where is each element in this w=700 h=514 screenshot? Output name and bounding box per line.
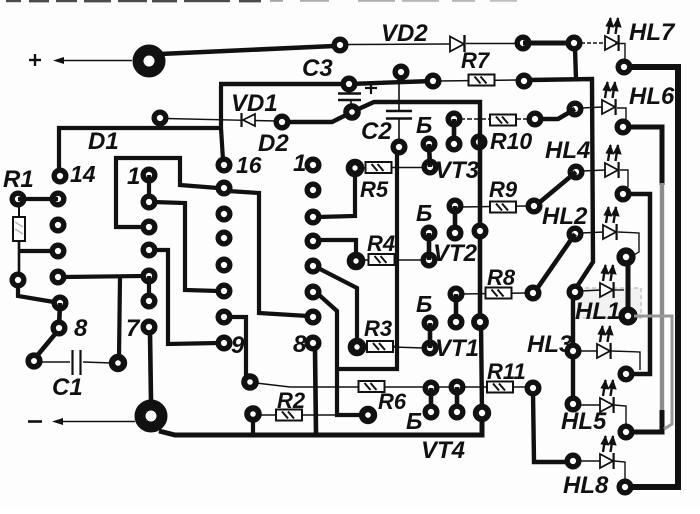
wire HL1-HL3-HL5 anode chain (571, 295, 575, 404)
wire pin1-pin2 (147, 175, 151, 202)
resistor R3 (351, 341, 398, 353)
pad D1 pin2 (143, 196, 155, 208)
resistor R11 (487, 382, 513, 393)
resistor R5 (349, 162, 422, 174)
wire HL5 cathode (614, 405, 626, 424)
wire 313,266 to R3 left pad (318, 268, 357, 343)
svg-text:C3: C3 (302, 55, 333, 82)
svg-text:R11: R11 (487, 359, 526, 384)
svg-text:C1: C1 (52, 374, 83, 401)
pad HL6 cathode (617, 121, 629, 133)
pad 429,233 (423, 227, 435, 239)
wire top horizontal to C3 (219, 81, 433, 84)
pad HL1 cathode (622, 310, 635, 323)
svg-text:R5: R5 (360, 177, 389, 202)
svg-text:VD1: VD1 (231, 90, 278, 117)
pad 313,190 (307, 184, 319, 196)
scan artifact marks along top edge (6, 0, 517, 2)
svg-text:HL3: HL3 (527, 331, 573, 358)
pad R9 right (528, 200, 540, 212)
pad 429,144 (423, 138, 435, 150)
pad C1 left (28, 355, 40, 367)
wire HL1 anode lead (581, 290, 601, 291)
svg-text:VT3: VT3 (435, 157, 480, 184)
pad R2 left upper (244, 376, 256, 388)
pad HL6 anode (569, 103, 581, 115)
svg-text:Б: Б (416, 112, 432, 138)
wire HL4 anode lead (582, 170, 605, 171)
wire pin2 to pad 224,188 (153, 202, 218, 291)
svg-text:HL1: HL1 (575, 298, 620, 325)
minus terminal arrow (28, 418, 135, 425)
pad C2 top (395, 66, 407, 78)
wire HL7 cathode (615, 44, 625, 61)
pad HL2 anode (569, 228, 581, 240)
wire plus pad to VD2 pad (160, 46, 334, 54)
wire HL8 anode lead (579, 460, 601, 462)
label C3 plus (365, 82, 377, 94)
pad HL4 anode (570, 166, 582, 178)
pad HL1 anode (569, 286, 581, 298)
resistor R7 (469, 75, 495, 86)
wire 454,119-454,144 (452, 119, 457, 144)
pad 224,188 (218, 182, 230, 194)
wire VT3 collector trace C3 area (59, 128, 221, 174)
svg-text:C2: C2 (361, 118, 392, 145)
wire C2 pad stub (399, 76, 400, 83)
wire R2 line (259, 414, 362, 416)
wire VD1 line (166, 119, 276, 122)
svg-text:1: 1 (293, 150, 306, 177)
wire D2 pad to C3 bottom to R10 bus (285, 102, 480, 135)
pad R1 top (12, 193, 24, 205)
wire 456,294-456,322 (454, 294, 459, 322)
wire drop to C1 right pad (119, 277, 120, 358)
capacitor C3 (338, 87, 361, 109)
pad 480,322 (474, 316, 486, 328)
wire HL3 cathode (611, 351, 640, 370)
pad 313,241 (307, 235, 319, 247)
wire VD2 anode (348, 43, 449, 46)
wire R8 line (462, 293, 527, 294)
resistor R10 (490, 115, 516, 126)
pad 454,144 (448, 138, 460, 150)
pad D2 top left (276, 116, 288, 128)
pad C3 bottom (346, 106, 358, 118)
wire ground U link (337, 152, 397, 369)
pad 224,165 pin16 (218, 159, 230, 171)
pad 224,265 (218, 259, 230, 271)
wire 430,323-430,348 (428, 323, 433, 348)
pad 313,343 (307, 337, 319, 349)
pad 313,217 (307, 211, 319, 223)
pad 313,165 (307, 159, 319, 171)
wire R4 to VT2 pad (394, 259, 423, 261)
wire pin4 to pin9 pad (154, 250, 218, 344)
pad 313,317 (307, 311, 319, 323)
wire HL7 pad down to R7 node (575, 48, 576, 79)
pad 313,266 (307, 260, 319, 272)
LED HL4 (605, 144, 622, 178)
pad 58,225 (52, 219, 64, 231)
svg-text:8: 8 (74, 315, 88, 342)
svg-text:R9: R9 (489, 177, 518, 202)
pad HL8 anode (567, 455, 579, 467)
wire R9 pad to HL4 pad diagonal (534, 172, 576, 207)
wire 429,144-430,167 (429, 144, 430, 167)
pad C3 top (343, 78, 355, 90)
pad D1 pin1 (143, 169, 155, 181)
svg-text:HL8: HL8 (563, 472, 609, 499)
resistor R2 (276, 410, 302, 421)
pad D1 pin6 (143, 295, 155, 307)
svg-text:R6: R6 (378, 389, 407, 414)
pad R10 right (529, 113, 541, 125)
svg-text:VT1: VT1 (435, 335, 479, 362)
wire HL2 cathode (618, 232, 639, 256)
wire HL2-HL1 cathode chain (626, 263, 631, 312)
wire R2 stub to bus (251, 420, 255, 434)
LED HL5 (600, 379, 617, 413)
LED HL1 (600, 264, 617, 298)
wire VD2 cathode (466, 43, 516, 45)
pad D1 pin4 (143, 244, 155, 256)
pad 59,328 pin8 (53, 322, 65, 334)
pad R8 right (527, 287, 539, 299)
pad VT4 base (362, 409, 374, 421)
wire 455,206-455,233 (453, 206, 458, 233)
resistor R8 (486, 288, 512, 299)
LED HL8 (600, 435, 617, 469)
pad HL7 cathode (618, 61, 630, 73)
pad C2 bottom (393, 141, 405, 153)
wire pin5-pin6 (147, 276, 151, 301)
pad 457,412 (451, 406, 463, 418)
svg-text:1: 1 (127, 163, 140, 190)
wire collector bus lower (481, 322, 482, 414)
pad HL5 cathode (620, 426, 632, 438)
svg-text:VD2: VD2 (381, 20, 428, 47)
wire 60,303 to 59,328 (59, 303, 60, 328)
wire R10 pad to HL6 pad (535, 109, 575, 119)
pad 480,231 (474, 225, 486, 237)
pad R7 right (518, 75, 530, 87)
pad C1 right (112, 357, 124, 369)
wire HL8 cathode (614, 461, 625, 480)
wire HL7 anode lead (581, 42, 605, 44)
svg-text:7: 7 (126, 315, 141, 342)
svg-text:D1: D1 (88, 128, 119, 155)
pad 224,238 (218, 232, 230, 244)
pad R2 left lower (247, 408, 259, 420)
wire R8 pad to HL2 pad diagonal (534, 234, 575, 293)
pad 58,199 (52, 193, 64, 205)
svg-text:Б: Б (416, 200, 432, 226)
wire 431,388-431,412 (429, 388, 434, 412)
resistor R1 vertical (13, 205, 25, 274)
pad 456,322 (450, 316, 462, 328)
wire 313,217 to R5 left pad (318, 173, 355, 217)
wire 59,328 to C1 left diagonal (36, 333, 56, 357)
pad R1 bottom (12, 274, 24, 286)
pad 224,317 (218, 311, 230, 323)
svg-text:Б: Б (406, 408, 422, 434)
wire R1 bottom to pad 60,303 (18, 285, 54, 302)
pad HL2 cathode (620, 251, 633, 264)
wire R9 line (461, 206, 528, 207)
LED HL7 (605, 17, 622, 51)
pad VT2 emitter (423, 254, 435, 266)
LED HL3 (597, 325, 614, 359)
svg-text:R10: R10 (490, 128, 532, 154)
wire R10 line (460, 118, 530, 120)
pad 456,294 (450, 288, 462, 300)
wire 457,387-457,412 (455, 387, 460, 412)
pad HL3 cathode (620, 368, 632, 380)
LED HL6 (602, 81, 619, 115)
svg-text:R7: R7 (461, 48, 491, 73)
resistor R6 (359, 381, 385, 392)
svg-text:VT4: VT4 (421, 437, 465, 464)
wire HL6 cathode (617, 108, 626, 120)
wire pad to HL7 anode pad (523, 41, 574, 46)
wire pin3 loop (116, 158, 218, 227)
pad 482,413 (476, 407, 488, 419)
wire HL4 cathode (620, 170, 628, 187)
wire HL1 cathode lead (614, 289, 624, 291)
svg-text:16: 16 (236, 152, 262, 178)
wire HL6-HL5 bus black top (630, 127, 662, 185)
svg-text:R8: R8 (487, 265, 516, 290)
svg-text:14: 14 (70, 161, 96, 187)
svg-text:VT2: VT2 (433, 240, 478, 267)
pad VT1 emitter (424, 342, 436, 354)
pad VT3 emitter (424, 161, 436, 173)
resistor R4 (350, 254, 398, 267)
wire 429,233-429,260 (427, 233, 432, 260)
wire HL1 box gray (578, 288, 641, 318)
pad 224,214 (218, 208, 230, 220)
capacitor C2 (386, 78, 412, 141)
pad D1 pin3 (143, 221, 155, 233)
pad HL4 cathode (617, 188, 629, 200)
pad 455,233 (449, 227, 461, 239)
pad 60,303 (54, 297, 66, 309)
diode VD1 (242, 113, 256, 127)
wire collector bus x480 (478, 139, 483, 322)
wire gray route from HL1 cathode (634, 316, 672, 429)
pad HL3 anode (567, 345, 579, 357)
resistor R9 (490, 202, 516, 213)
pad R11 right (527, 382, 539, 394)
svg-text:HL7: HL7 (629, 19, 676, 46)
pad 455,206 (449, 200, 461, 212)
wire 313,241 to R4 left pad (318, 240, 356, 257)
pad HL7 anode (568, 37, 580, 49)
pad 224,343 pin9 (218, 337, 230, 349)
wire 224,317 to R2 left pad (230, 317, 246, 378)
svg-text:Б: Б (416, 291, 432, 317)
svg-text:HL4: HL4 (545, 137, 590, 164)
wire HL4-HL3 bus (630, 194, 650, 374)
svg-text:9: 9 (231, 332, 245, 359)
pad R7 left (427, 75, 439, 87)
wire R1 mid tap (19, 249, 52, 253)
wire R3 to VT1 pad (392, 347, 424, 348)
pad top VD2 left (334, 39, 346, 51)
pad HL5 anode (567, 398, 579, 410)
pad 58,277 (52, 271, 64, 283)
pad VD2 right (517, 37, 529, 49)
pad 454,119 (448, 113, 460, 125)
wire HL6 anode lead (581, 107, 603, 108)
pad 431,388 (425, 382, 437, 394)
pad 479,142 (473, 136, 485, 148)
svg-text:R3: R3 (364, 316, 392, 341)
wire HL7-HL8 right bus (631, 67, 678, 487)
svg-text:R4: R4 (367, 231, 395, 256)
wire R7 node bus to HL1 anode (529, 79, 593, 288)
svg-text:R2: R2 (277, 388, 306, 413)
wire 313,343 down to minus bus (315, 349, 316, 433)
wire R6 line (256, 383, 528, 387)
big plus pad (138, 50, 160, 72)
wire HL6-HL5 bus black bottom (634, 410, 662, 432)
pad 430,323 (424, 317, 436, 329)
pad D1 pin7 (143, 321, 155, 333)
capacitor C1 (40, 350, 112, 375)
wire R7 line (439, 80, 517, 81)
svg-text:D2: D2 (258, 130, 289, 157)
svg-text:HL6: HL6 (629, 83, 675, 110)
wire HL3 anode lead (579, 350, 598, 352)
pad D1 pin14 (54, 170, 66, 182)
wire R1 top link (18, 197, 58, 201)
wire pin7 to minus pad (150, 333, 151, 400)
pad 58,251 (52, 245, 64, 257)
wire HL6-HL5 bus gray middle (660, 183, 664, 414)
pad 457,387 (451, 381, 463, 393)
wire vertical to pin16 (221, 86, 223, 160)
svg-text:R1: R1 (3, 166, 34, 193)
wire HL2 anode lead (581, 232, 604, 233)
svg-text:HL5: HL5 (561, 408, 607, 435)
wire 313,292 to VT4 base pad (318, 294, 362, 415)
big minus pad (140, 405, 162, 427)
pad 431,412 (425, 406, 437, 418)
pad 313,292 (307, 286, 319, 298)
diode VD2 (450, 35, 465, 52)
pad VD1 left (154, 112, 166, 124)
wire 58,277 to 149,276 with C1 drop (64, 276, 143, 277)
pad D1 pin5 (143, 270, 155, 282)
pad 224,291 (218, 285, 230, 297)
wire minus bus bottom (159, 419, 482, 435)
wire HL5 anode lead (579, 404, 601, 406)
wire R11 to HL8 route (533, 392, 567, 462)
pad HL8 cathode (619, 481, 631, 493)
plus terminal arrow (29, 54, 132, 66)
LED HL2 (603, 206, 620, 240)
wire 224,188 to D2 pin chain (228, 191, 308, 316)
svg-text:HL2: HL2 (542, 203, 588, 230)
